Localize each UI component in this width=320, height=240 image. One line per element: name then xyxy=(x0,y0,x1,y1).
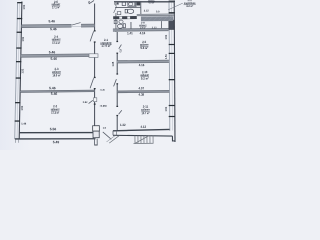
landing band xyxy=(113,135,172,137)
corridor label 2-1 xyxy=(100,38,112,48)
svg-text:13.7 м²: 13.7 м² xyxy=(141,111,149,115)
svg-text:1.51: 1.51 xyxy=(165,54,168,59)
bath room small label xyxy=(148,0,156,5)
row4 wc bowl xyxy=(117,24,122,28)
bath block dark midwall left part xyxy=(113,16,137,19)
bottom wall inner line xyxy=(20,132,93,133)
corridor right wall V2 with door gaps xyxy=(116,32,118,131)
svg-text:17.3 м²: 17.3 м² xyxy=(51,111,59,115)
vertical wall row4 xyxy=(130,22,132,29)
svg-text:1.41: 1.41 xyxy=(127,31,133,35)
room label 2-6 xyxy=(52,0,61,9)
entrance pier box xyxy=(93,126,100,131)
door leaf 2-11 xyxy=(119,110,122,114)
small texts bath block xyxy=(114,1,160,14)
right column wall HR2 xyxy=(117,60,169,63)
svg-text:17.9 м²: 17.9 м² xyxy=(101,44,110,48)
svg-text:5.46: 5.46 xyxy=(49,50,56,54)
right column wall HR1 (bath block bottom) xyxy=(113,28,169,31)
right exterior wall outer line xyxy=(173,1,176,143)
wc bowl xyxy=(127,9,133,13)
dimension texts left column xyxy=(48,19,59,144)
room label 2-5 xyxy=(140,40,149,50)
right wall caps xyxy=(169,1,175,14)
svg-text:4.16: 4.16 xyxy=(140,31,146,35)
bath tub xyxy=(128,2,135,6)
svg-text:1.65: 1.65 xyxy=(112,61,115,66)
svg-text:4.16: 4.16 xyxy=(139,63,145,67)
svg-text:1.51: 1.51 xyxy=(21,105,24,110)
svg-text:1.51: 1.51 xyxy=(23,4,26,9)
svg-text:2.12: 2.12 xyxy=(144,9,150,13)
svg-text:1.51: 1.51 xyxy=(165,34,168,39)
svg-text:1.48: 1.48 xyxy=(21,123,27,126)
svg-text:-0.45: -0.45 xyxy=(100,89,106,92)
svg-text:4.07: 4.07 xyxy=(138,86,144,90)
vertical wall in small rooms strip xyxy=(161,21,163,28)
H1 door leaf xyxy=(72,23,81,25)
room label 2-3 xyxy=(52,67,61,77)
svg-text:4.2 м²: 4.2 м² xyxy=(186,4,193,8)
svg-text:1.51: 1.51 xyxy=(22,68,25,73)
svg-text:1.32: 1.32 xyxy=(120,123,126,127)
room label 2-10 xyxy=(140,70,149,80)
outside label top right xyxy=(184,0,196,8)
svg-text:9.2 м²: 9.2 м² xyxy=(141,76,149,80)
door swing into block corridor xyxy=(114,7,117,14)
steps xyxy=(133,135,153,143)
door leaf room 2-6 xyxy=(89,1,94,4)
misc small texts xyxy=(82,0,108,130)
svg-text:4.38: 4.38 xyxy=(139,93,145,97)
H1 door lintel xyxy=(72,25,81,27)
bottom-right corner step xyxy=(172,136,175,141)
right column wall HR3 xyxy=(117,90,169,92)
pier box on corridor wall xyxy=(94,98,97,102)
bathroom block midwall 2 right part xyxy=(137,14,174,16)
left exterior wall inner line xyxy=(19,2,22,139)
svg-text:4.9 м²: 4.9 м² xyxy=(149,0,155,4)
svg-text:16.9 м²: 16.9 м² xyxy=(53,73,61,77)
right wall dark pier block xyxy=(169,20,174,29)
svg-text:+0.850: +0.850 xyxy=(99,105,107,108)
dark closet xyxy=(137,2,141,6)
door leaf room 2-4 xyxy=(90,31,94,41)
svg-text:5.46: 5.46 xyxy=(48,19,55,23)
svg-text:2: 2 xyxy=(88,0,90,4)
right wall window caps mid xyxy=(169,44,175,117)
svg-text:5.56: 5.56 xyxy=(50,127,57,131)
svg-text:2.12: 2.12 xyxy=(152,26,158,29)
right exterior wall inner line xyxy=(168,1,171,131)
svg-text:17.1 м²: 17.1 м² xyxy=(52,41,60,45)
left bottom step xyxy=(14,140,16,143)
left exterior wall outer line xyxy=(15,2,18,139)
top wall of bathroom block xyxy=(114,1,174,3)
dimension texts right column xyxy=(119,31,146,129)
svg-text:2.9 м²: 2.9 м² xyxy=(140,25,146,29)
svg-text:0.9: 0.9 xyxy=(156,10,160,14)
wall right of closet xyxy=(140,1,142,15)
leader line to outside label xyxy=(168,3,183,10)
dark hatched band xyxy=(141,16,173,21)
room label 2-2 xyxy=(51,104,60,115)
landing left stub xyxy=(112,131,114,135)
small room label row4 xyxy=(139,21,157,29)
entrance door leaf xyxy=(103,132,111,139)
sink xyxy=(122,2,126,5)
door leaf room 2-2 xyxy=(89,100,93,103)
door leaf room 2-3 xyxy=(90,78,94,88)
door leaf 2-5 xyxy=(119,45,122,49)
entrance pier column xyxy=(93,131,99,138)
bath vertical wall xyxy=(135,1,137,7)
V2 door caps xyxy=(116,41,118,116)
svg-text:5.46: 5.46 xyxy=(50,57,57,61)
bathroom block midwall 1 xyxy=(115,6,141,8)
svg-text:4.12: 4.12 xyxy=(140,125,146,129)
right wall window middle line xyxy=(171,2,174,131)
wc tank xyxy=(125,9,127,13)
corridor left wall V1 xyxy=(94,4,96,133)
svg-text:5.46: 5.46 xyxy=(51,92,58,96)
right wall caps lower xyxy=(169,79,175,80)
bathroom block left wall (double) xyxy=(115,2,117,7)
room label 2-4 xyxy=(52,35,61,45)
bottom wall outer line left xyxy=(15,138,96,139)
left wall window middle line xyxy=(17,2,20,139)
pier box at H2 right end xyxy=(89,54,98,58)
interior wall H2 xyxy=(21,54,95,57)
room label 2-11 xyxy=(141,105,150,116)
svg-text:17.1 м²: 17.1 м² xyxy=(52,5,60,9)
door leaf 2-10 xyxy=(114,79,117,86)
svg-text:9.6 м²: 9.6 м² xyxy=(140,46,148,50)
svg-text:1.51: 1.51 xyxy=(22,36,25,41)
wc fixture small rect xyxy=(117,12,121,15)
vestibule walls xyxy=(94,139,96,145)
interior wall H1 (with door gap) xyxy=(21,22,94,27)
svg-text:0.82: 0.82 xyxy=(83,101,88,104)
ramp diagonals xyxy=(109,135,119,143)
right wall rotated window dims xyxy=(165,34,168,111)
left wall rotated window dims xyxy=(21,4,26,110)
svg-text:1.51: 1.51 xyxy=(165,106,168,111)
svg-text:1.46: 1.46 xyxy=(114,2,120,6)
hatch lines on dark band xyxy=(143,16,172,20)
svg-text:5.46: 5.46 xyxy=(50,27,57,31)
left wall window caps xyxy=(15,2,23,122)
corridor wall caps xyxy=(94,30,96,105)
svg-text:5.49: 5.49 xyxy=(53,140,60,144)
svg-text:5.46: 5.46 xyxy=(49,86,56,90)
small wc row3 fixtures xyxy=(114,20,117,23)
interior wall H3 xyxy=(14,0,198,146)
